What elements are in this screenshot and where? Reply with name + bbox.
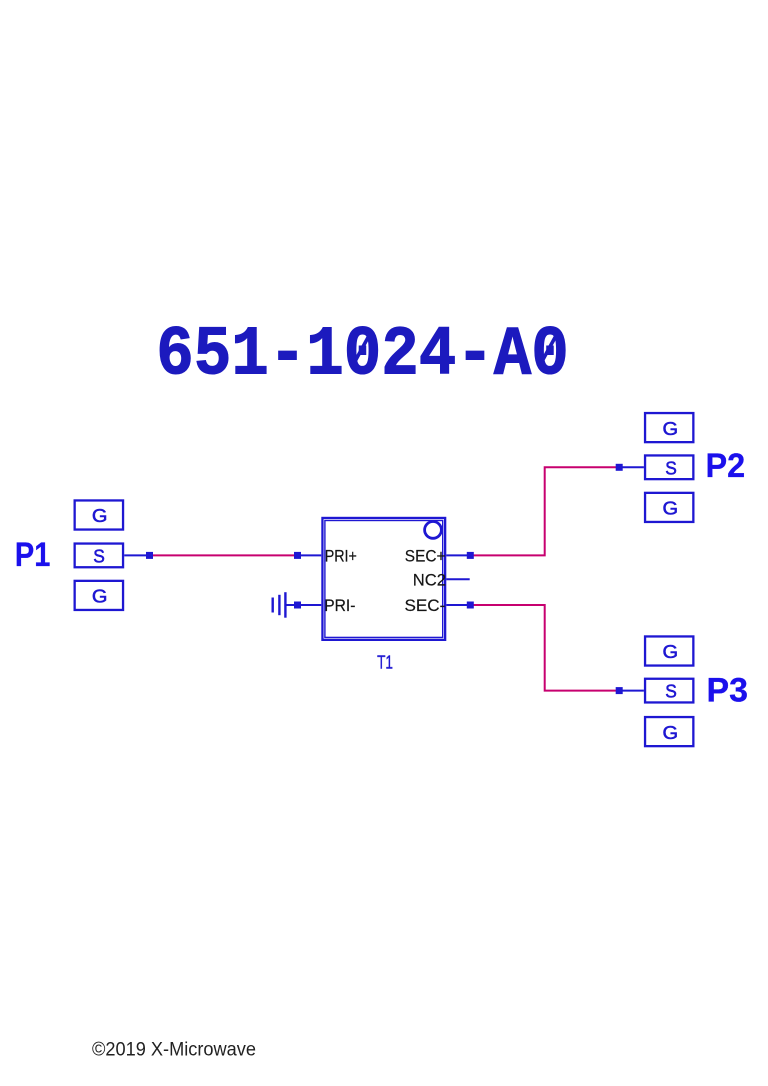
svg-text:G: G — [663, 498, 679, 519]
svg-text:G: G — [663, 722, 679, 743]
svg-text:T1: T1 — [377, 652, 393, 673]
svg-text:G: G — [663, 641, 679, 662]
svg-text:NC2: NC2 — [413, 570, 446, 589]
svg-text:651-1024-A0: 651-1024-A0 — [156, 316, 569, 395]
svg-text:SEC-: SEC- — [405, 596, 446, 615]
svg-text:SEC+: SEC+ — [405, 546, 446, 565]
svg-text:©2019 X-Microwave: ©2019 X-Microwave — [92, 1040, 256, 1061]
svg-text:PRI+: PRI+ — [325, 546, 357, 565]
svg-text:S: S — [93, 545, 105, 566]
svg-text:S: S — [665, 457, 677, 478]
svg-text:G: G — [663, 418, 679, 439]
svg-text:PRI-: PRI- — [324, 596, 355, 615]
svg-text:P2: P2 — [706, 447, 746, 485]
svg-text:P3: P3 — [707, 672, 749, 710]
svg-text:P1: P1 — [15, 536, 50, 574]
svg-text:G: G — [92, 586, 108, 607]
svg-text:S: S — [665, 681, 677, 702]
svg-text:G: G — [92, 505, 108, 526]
